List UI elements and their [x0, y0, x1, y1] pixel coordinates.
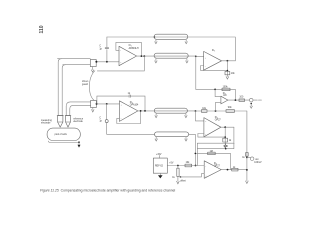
- wire IC5 + input: [196, 111, 204, 121]
- wire output bus: [246, 111, 248, 181]
- potentiometer offset 1k: [172, 166, 186, 184]
- node divider junction: [215, 110, 217, 112]
- node IC6 - input: [195, 165, 197, 167]
- svg-text:1k: 1k: [229, 140, 232, 142]
- svg-text:10k: 10k: [186, 162, 191, 164]
- resistor R (100k): [222, 88, 230, 91]
- svg-text:reference: reference: [73, 118, 83, 121]
- node offset junction: [177, 165, 179, 167]
- resistor R (1k) to ground at IC5: [223, 127, 232, 148]
- wire IC1 feedback loop: [116, 42, 141, 56]
- connector output jack: [247, 157, 262, 164]
- node IC1 output junctions: [141, 55, 143, 57]
- microelectrode (reference): [65, 116, 71, 128]
- svg-text:driven: driven: [82, 80, 89, 83]
- svg-text:100mV: 100mV: [254, 162, 262, 164]
- wire pot wiper to IC6 + input: [181, 174, 204, 177]
- ground bus: [246, 181, 249, 184]
- wire IC5 output: [221, 126, 234, 128]
- wire IC3 output: [222, 60, 236, 62]
- wire IC4 output: [228, 99, 250, 101]
- capacitor 1p (positive feedback, IC2): [97, 93, 145, 111]
- wire measuring electrode cable (coax pair): [58, 59, 65, 116]
- wire IC5 output to IC6 summing network: [197, 127, 234, 165]
- wire IC4 feedback: [196, 57, 236, 101]
- svg-text:C: C: [99, 118, 101, 120]
- resistor R (1M feedback IC6): [195, 151, 231, 170]
- wire IC6 output: [221, 169, 247, 171]
- wire IC1 output: [137, 55, 196, 57]
- svg-text:+: +: [205, 57, 207, 59]
- resistor R (10k offset): [185, 164, 192, 167]
- wire IC3 feedback loop: [201, 66, 228, 71]
- svg-text:1k: 1k: [242, 157, 245, 159]
- wire reference line with divider resistors: [196, 110, 247, 112]
- node input junction IC1: [106, 61, 108, 63]
- wire compensation line to IC3 output: [107, 37, 235, 61]
- op-amp IC6: [204, 161, 221, 179]
- connector jack (compensation drive): [249, 98, 261, 108]
- svg-text:C: C: [99, 46, 101, 48]
- shielded cable (compensation line): [154, 34, 188, 44]
- svg-text:110: 110: [39, 25, 45, 33]
- op-amp IC3: [204, 50, 222, 70]
- wire to IC6 - input: [167, 165, 204, 167]
- svg-text:+15V: +15V: [156, 154, 162, 156]
- wire IC1 input: [97, 61, 120, 63]
- resistor R (10k): [201, 110, 207, 113]
- capacitor C (feedback cap IC6): [224, 143, 228, 149]
- shielded cable (IC1 output to IC3): [154, 53, 188, 63]
- wire cable3 to IC6 input node: [189, 134, 196, 165]
- node out junction: [246, 157, 248, 159]
- svg-text:electrode: electrode: [73, 120, 83, 123]
- op-amp IC1: [119, 45, 139, 65]
- node junction cable / IC3 input: [195, 56, 197, 58]
- wire IC4 - input: [215, 89, 221, 96]
- svg-text:OPA104: OPA104: [130, 104, 139, 107]
- wire IC5 feedback staple: [198, 134, 225, 138]
- node input junction IC2: [106, 103, 108, 105]
- wire reference electrode cable (coax pair): [66, 102, 90, 116]
- wire driven guard from IC1 output: [97, 56, 144, 71]
- resistor R (100): [239, 99, 245, 102]
- svg-text:-: -: [120, 49, 121, 52]
- resistor R (90k): [226, 110, 235, 113]
- svg-text:OP27: OP27: [215, 120, 222, 122]
- svg-text:+: +: [121, 104, 123, 106]
- svg-text:Figure 11.25 Compensating mic: Figure 11.25 Compensating microelectrode…: [40, 189, 176, 193]
- svg-text:-: -: [205, 65, 206, 68]
- capacitor Cc (compensation cap, measuring channel): [99, 37, 109, 62]
- node IC2 output junctions: [140, 110, 142, 112]
- capacitor Cr (reference channel compensation): [99, 104, 154, 134]
- op-amp IC4 (booster): [221, 93, 228, 104]
- voltage reference REF-02: [153, 154, 167, 179]
- svg-text:+5V: +5V: [169, 163, 174, 165]
- pool of cells (bath): [47, 128, 80, 148]
- wire to IC3 + input: [196, 56, 204, 58]
- svg-text:×10: ×10: [223, 94, 228, 97]
- op-amp IC2: [119, 101, 139, 122]
- wire IC2 input: [97, 103, 120, 105]
- svg-text:measuring: measuring: [41, 119, 52, 122]
- svg-text:REF-02: REF-02: [155, 166, 164, 168]
- wire IC2 output: [138, 110, 196, 112]
- shielded cable (compensation, reference channel): [155, 132, 189, 141]
- svg-text:100k: 100k: [223, 87, 229, 89]
- shielded cable (reference channel): [154, 108, 187, 118]
- wire IC4 + input: [216, 102, 221, 111]
- svg-text:OP27: OP27: [214, 166, 221, 168]
- svg-text:electrode: electrode: [41, 122, 51, 125]
- svg-text:pool of cells: pool of cells: [55, 134, 68, 136]
- connector J2 (reference electrode cable plug): [91, 100, 98, 112]
- svg-text:-: -: [205, 165, 206, 168]
- svg-text:offset: offset: [180, 179, 186, 182]
- svg-text:1k: 1k: [172, 177, 175, 179]
- svg-text:100: 100: [239, 97, 244, 99]
- svg-text:guard: guard: [82, 83, 89, 86]
- connector J1 (measuring electrode cable plug): [58, 59, 98, 72]
- node reference line junction: [195, 110, 197, 112]
- svg-text:+: +: [205, 121, 207, 123]
- svg-text:IC₃: IC₃: [212, 50, 215, 52]
- svg-text:1p: 1p: [99, 120, 102, 122]
- resistor R (bus 1k): [246, 153, 249, 157]
- brace guard annotation: [89, 71, 95, 101]
- op-amp IC5: [204, 117, 221, 137]
- svg-text:1M: 1M: [210, 151, 213, 153]
- microelectrode (measuring): [57, 116, 64, 128]
- svg-text:90k: 90k: [228, 107, 233, 109]
- svg-text:out: out: [255, 158, 259, 161]
- svg-text:1p: 1p: [99, 48, 102, 50]
- svg-text:+: +: [120, 62, 122, 64]
- resistor R (1k output): [232, 168, 238, 171]
- resistor R (10k) to ground at IC3: [225, 61, 235, 79]
- svg-text:AD549LH: AD549LH: [129, 47, 139, 50]
- svg-text:10k: 10k: [231, 73, 236, 75]
- wire IC2 negative feedback loop: [117, 111, 141, 124]
